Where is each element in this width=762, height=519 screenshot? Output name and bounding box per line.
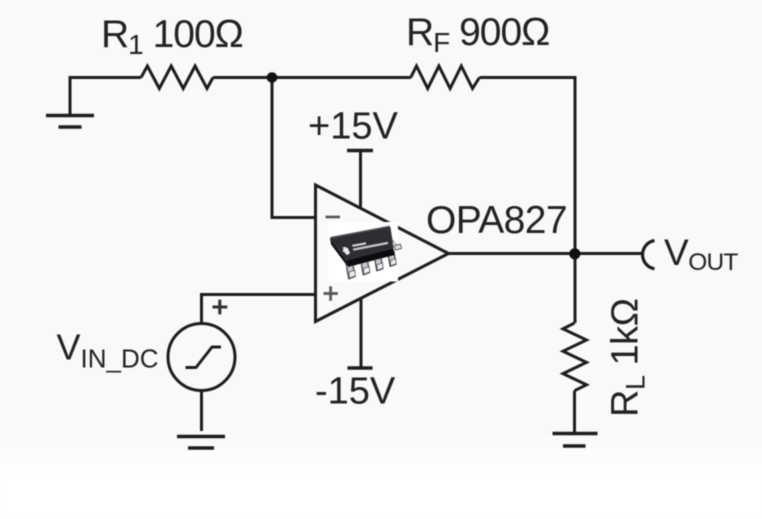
output node junction dot	[569, 248, 580, 259]
wire node A to RF	[272, 76, 411, 79]
ground G3 below RL	[553, 434, 598, 447]
ground G2 below source	[177, 437, 225, 449]
svg-text:-15V: -15V	[315, 371, 396, 413]
supply +15V terminal	[347, 151, 373, 209]
VOUT terminal arc	[643, 241, 655, 269]
op-amp plus symbol	[324, 286, 338, 300]
IC pin front 3	[375, 255, 383, 271]
svg-text:R1 100Ω: R1 100Ω	[101, 13, 243, 60]
svg-text:RF 900Ω: RF 900Ω	[406, 11, 549, 58]
photo white patch	[329, 222, 399, 282]
TI logo text line Texas	[352, 243, 366, 246]
voltage source VIN_DC circle	[168, 324, 235, 391]
wire RF to output node	[480, 78, 576, 254]
supply -15V terminal	[348, 298, 373, 368]
svg-text:+15V: +15V	[308, 106, 398, 148]
svg-text:RL 1kΩ: RL 1kΩ	[605, 298, 651, 417]
wire +input	[202, 295, 316, 325]
svg-text:OPA827: OPA827	[426, 199, 567, 242]
wire node A to inverting input	[272, 76, 315, 218]
TI logo text line Instruments	[353, 243, 388, 250]
TI logo mark	[342, 247, 350, 255]
IC photo OPA827 package	[329, 222, 402, 282]
node A junction dot	[267, 72, 278, 83]
IC pin front 4	[388, 251, 396, 266]
ground G1 top-left	[46, 78, 94, 128]
wire source to ground	[200, 391, 203, 432]
resistor R1	[141, 66, 213, 89]
IC top bevel edge	[331, 226, 390, 237]
source plus polarity symbol	[213, 300, 228, 315]
wire op-amp output	[449, 252, 643, 255]
IC pin front 2	[361, 258, 370, 275]
resistor RF	[411, 66, 480, 89]
resistor RL	[563, 323, 587, 391]
IC body top face	[330, 227, 393, 261]
ramp symbol inside source	[186, 347, 222, 368]
IC right bevel edge	[390, 227, 393, 249]
op-amp U1 triangle	[316, 185, 449, 322]
IC pin back right	[394, 244, 401, 250]
wire RL to ground	[573, 391, 576, 432]
IC body front face	[346, 248, 395, 267]
faint lead line	[390, 237, 398, 246]
IC pin front 1	[346, 262, 355, 279]
wire ground to R1	[69, 76, 142, 79]
wire output node down to RL	[574, 254, 577, 324]
wire R1 to node A	[213, 76, 272, 79]
op-amp minus symbol	[326, 216, 341, 219]
IC body side face	[330, 238, 348, 267]
